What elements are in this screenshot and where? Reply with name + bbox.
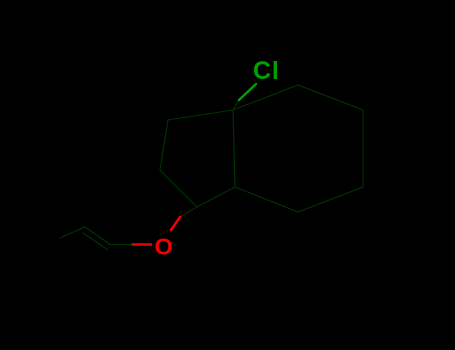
svg-text:Cl: Cl <box>253 57 280 85</box>
Cl bond dark half <box>233 100 239 110</box>
Cl bond bright half <box>239 84 256 100</box>
svg-text:O: O <box>155 234 173 260</box>
right ring (cyclohexane, fused) <box>233 85 363 212</box>
left ring (cyclopentane, fused) <box>160 110 235 207</box>
O bond left: red half <box>132 243 151 246</box>
O bond up-right: dark half to ring <box>180 207 197 217</box>
chain double bond main <box>85 227 110 245</box>
O bond up-right: red half <box>171 217 180 230</box>
chain methyl <box>60 227 85 238</box>
O bond left: dark half <box>110 244 132 246</box>
chain double bond twin <box>83 233 108 250</box>
